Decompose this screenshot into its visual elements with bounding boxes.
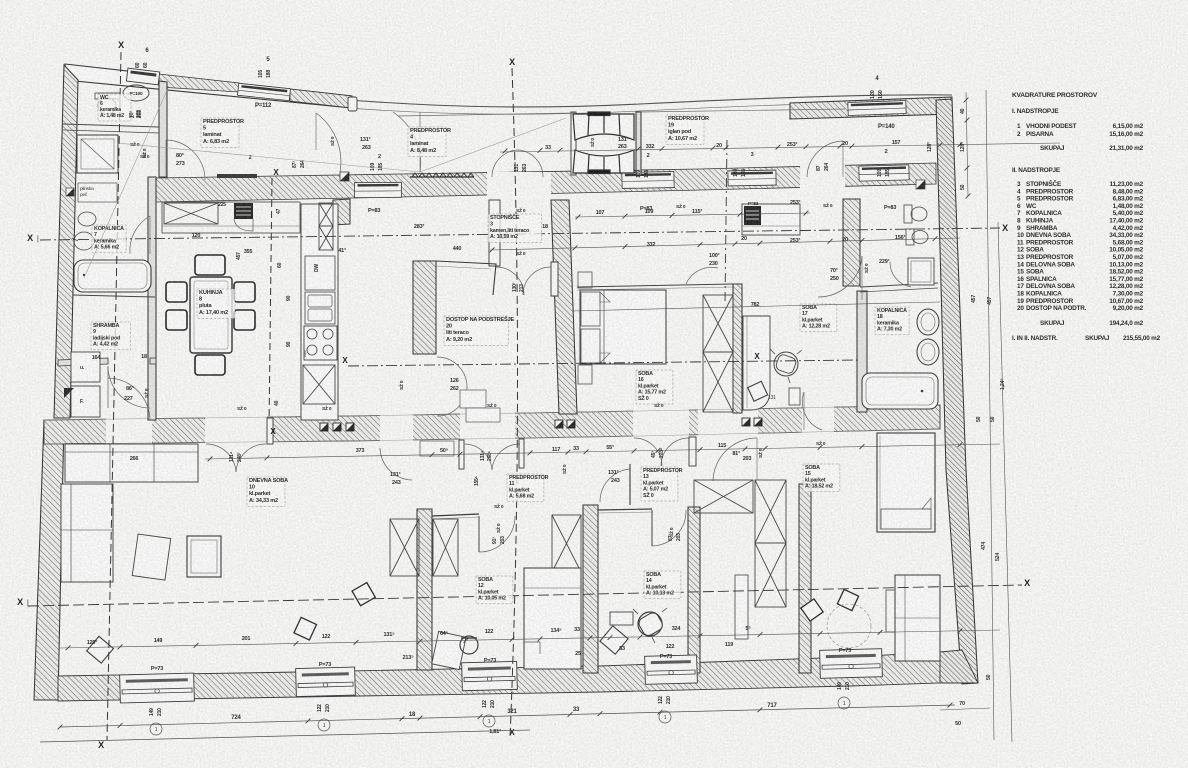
door arc soba14 xyxy=(713,438,757,481)
double door predprostor11 xyxy=(464,444,492,470)
middle wall band xyxy=(44,405,940,444)
wall under WC xyxy=(63,124,159,127)
desk soba17 top xyxy=(742,204,800,235)
right vertical dim lines xyxy=(966,92,968,196)
outer wall left (lower, dnevna) xyxy=(34,420,64,700)
toilet kopalnica7 xyxy=(74,232,94,250)
door arc predprostor5 right xyxy=(316,113,341,172)
washer kopalnica18 xyxy=(908,258,934,285)
office chair soba14 xyxy=(638,612,662,636)
section line horizontal 3 xyxy=(28,585,1022,606)
armchair rotated dnevna 2 xyxy=(294,617,317,640)
bottom-most line 1,81 xyxy=(40,730,530,742)
counter curve xyxy=(234,219,253,231)
wardrobe X upper xyxy=(703,295,733,352)
axis circle 1 xyxy=(318,719,330,731)
wardrobe X soba14 horizontal xyxy=(694,480,753,513)
outer wall top-left wing xyxy=(65,64,352,108)
label predprostor 5 xyxy=(201,118,244,147)
dim 782 xyxy=(573,302,940,311)
dostop top thin wall L xyxy=(436,261,496,295)
shelf soba14 xyxy=(735,575,748,639)
door opening predprostor13 double door in middle wall xyxy=(633,404,689,445)
label kopalnica 18 xyxy=(875,307,909,335)
label soba 12 xyxy=(476,576,513,604)
armchairs soba15 corner xyxy=(801,599,823,621)
corridor boundary line xyxy=(398,113,575,116)
bathtub kopalnica18 xyxy=(862,373,938,409)
wall predprostor19/soba17 xyxy=(843,199,860,286)
flue squares kitchen wall xyxy=(320,423,328,431)
wall soba16/soba17 xyxy=(733,284,742,413)
wall soba12 left xyxy=(417,509,432,670)
stair right thin wall xyxy=(636,112,641,175)
wall soba14 left xyxy=(688,507,700,673)
label WC 6 xyxy=(98,94,131,121)
window P=83 no.1 xyxy=(354,182,401,197)
door arc soba17 xyxy=(818,256,862,297)
dostop small boxes xyxy=(460,390,486,408)
double door stair bottom xyxy=(496,267,524,295)
section line vertical 1 xyxy=(107,52,121,740)
axis circle 1 xyxy=(838,697,850,709)
chair soba12 xyxy=(460,636,478,654)
window P=83 no.2 xyxy=(622,172,674,189)
door arc kopalnica18 xyxy=(890,262,911,287)
dark marker triangles left wall xyxy=(64,388,74,398)
window P=73 no.3 xyxy=(462,661,518,690)
armchair + table soba14 xyxy=(610,612,633,625)
label dostop 20 xyxy=(444,315,514,345)
wall kopalnica/shramba with door gap xyxy=(58,358,108,366)
label stopnisce 3 xyxy=(488,213,542,243)
wall kopalnica/kuhinja xyxy=(148,177,156,420)
wardrobe X soba15 lower xyxy=(755,543,786,607)
bathtub kopalnica7 xyxy=(74,260,151,292)
L-desk soba17 xyxy=(743,316,770,410)
label soba 14 xyxy=(644,571,681,599)
round table dashed soba15 xyxy=(827,604,871,648)
stove 4 burners xyxy=(304,326,337,360)
kitchen dark sink unit xyxy=(234,203,253,219)
section line horizontal 2 xyxy=(348,360,860,366)
kitchen section dashed line xyxy=(269,178,272,426)
armchair bottom-left xyxy=(87,636,114,663)
outer wall bottom band xyxy=(58,652,940,701)
sight line diagonal corridor xyxy=(117,143,420,172)
shower cabin xyxy=(77,135,118,173)
kitchen corner pier xyxy=(333,199,350,225)
toilet kopalnica18 no.1 xyxy=(904,205,912,223)
door arc kopalnica7 xyxy=(130,216,150,254)
washbasin kopalnica7 xyxy=(78,212,96,226)
stair winder upper flight xyxy=(573,112,634,140)
sink kopalnica18 no.1 xyxy=(917,309,939,335)
window P=100 in top wall xyxy=(126,68,159,85)
kitchen table xyxy=(190,277,232,353)
outer wall left (upper wing) xyxy=(54,65,78,418)
kitchen chairs xyxy=(166,282,187,302)
soba14 top wall + door xyxy=(598,509,652,510)
kitchen cabinet X bottom xyxy=(303,365,335,404)
door arc shramba xyxy=(108,366,150,408)
wall stub at dnevna door xyxy=(267,418,273,444)
label shramba 9 xyxy=(91,322,131,350)
wardrobe X soba15 upper xyxy=(755,480,786,543)
door arc middle-wall shramba side xyxy=(108,378,150,420)
armchair rotated dnevna 1 xyxy=(352,583,375,606)
wardrobe X soba12 b xyxy=(433,519,458,576)
label soba 17 xyxy=(800,304,837,332)
label kuhinja 8 xyxy=(197,289,235,318)
interior window-wall band upper xyxy=(156,163,936,202)
window no.3 xyxy=(728,170,776,186)
label kopalnica 7 xyxy=(92,225,126,253)
double door stair top xyxy=(492,150,519,177)
gas stove box (plinska pec) xyxy=(78,183,117,202)
wardrobe X soba12 a xyxy=(390,519,419,576)
dim row top (y~148) xyxy=(500,143,1060,152)
stool soba17 xyxy=(789,388,800,405)
double door dnevna xyxy=(206,444,236,472)
section line horizontal 1 xyxy=(40,228,1000,240)
sofa soba15 xyxy=(895,575,940,661)
wall stub right of double door xyxy=(689,437,696,466)
dim row 332 (y~245) xyxy=(490,238,960,250)
dims bottom right 70 50 xyxy=(940,708,990,710)
label predprostor 19 xyxy=(666,115,709,144)
soba16 top wall line xyxy=(577,284,733,287)
flue squares right wall xyxy=(742,418,750,426)
shelf line below bathtub xyxy=(73,295,155,297)
wardrobe X lower xyxy=(703,352,733,412)
door opening predprostor4 xyxy=(487,172,551,199)
door arc corridor19 xyxy=(807,141,843,177)
kitchen counter column xyxy=(301,204,338,420)
window P=140 xyxy=(848,100,906,115)
door opening predprostor11 left door in middle wall xyxy=(380,404,413,445)
shelf soba15 right xyxy=(886,590,899,632)
bed soba15 xyxy=(877,433,935,532)
short wall stub predprostor4 left xyxy=(348,97,357,111)
door predprostor13 left + wall stub xyxy=(629,464,631,505)
axis circle 1 xyxy=(659,711,671,723)
window P=112 in top wall xyxy=(238,83,291,100)
door arc predprostor5 from WC wall xyxy=(166,140,205,180)
flue square left wall xyxy=(66,188,74,196)
bottom dim line xyxy=(60,705,955,727)
stair wall right hatched xyxy=(551,200,577,414)
wall kopalnica18 top xyxy=(860,283,938,287)
axis dashed vertical x726 xyxy=(725,140,727,302)
dim row y~640 xyxy=(60,630,1000,648)
bed soba16 xyxy=(580,290,666,364)
door-window P=73 no.5 xyxy=(820,649,883,679)
dishwasher DW xyxy=(305,256,335,290)
coffee table 1 xyxy=(132,534,171,580)
flue squares center wall xyxy=(555,420,563,428)
dim row below middle wall (y~450) xyxy=(205,444,1000,459)
sink kopalnica18 no.2 xyxy=(917,339,939,365)
wall soba15 left xyxy=(799,484,811,673)
desk soba12 xyxy=(432,631,466,669)
dim row middle (y~215) xyxy=(575,213,810,217)
wall WC/predprostor5 xyxy=(159,81,167,177)
axis circle 1 xyxy=(150,723,162,735)
wall soba17/kopalnica18 xyxy=(857,291,867,412)
radiator sawtooth predprostor4 xyxy=(412,173,474,177)
window P=73 no.1 xyxy=(120,673,195,703)
flue box small in band xyxy=(340,172,349,181)
stair enclosure wall left xyxy=(489,200,500,266)
stair left wall thin xyxy=(571,112,576,175)
door arc into soba15 xyxy=(802,392,822,430)
niche 50b rect xyxy=(420,441,454,456)
armchair diamond soba17 xyxy=(748,381,768,401)
label soba 16 xyxy=(636,370,673,404)
computer dark on desk xyxy=(744,206,761,225)
flue symbol in band right xyxy=(916,180,925,189)
fridge X box kitchen xyxy=(164,203,218,224)
area table KVADRATURE PROSTOROV xyxy=(1012,92,1161,342)
flue X narrow top xyxy=(319,203,333,226)
door opening shramba in middle wall xyxy=(106,404,152,445)
sofa L dnevna xyxy=(61,444,198,582)
kitchen-wall shelf bar and X marker xyxy=(217,174,257,178)
door opening predprostor19 door in middle wall xyxy=(802,404,834,445)
double door dostop left xyxy=(437,357,467,388)
washing machine F xyxy=(71,386,100,417)
label dnevna soba 10 xyxy=(247,477,288,506)
toilet kopalnica18 no.2 xyxy=(906,229,914,245)
double door predprostor13 xyxy=(634,438,662,466)
outer wall right xyxy=(936,99,978,684)
door opening soba14 door in middle wall xyxy=(698,404,758,445)
kitchen double sink xyxy=(305,292,335,324)
wardrobe X soba12 c xyxy=(552,515,581,572)
wall soba12/soba14 xyxy=(583,505,598,673)
bottom-right corner wall xyxy=(940,650,978,683)
label predprostor 11 xyxy=(507,474,549,502)
door opening predprostor11 door in middle wall xyxy=(460,404,515,445)
section line vertical 2 xyxy=(510,68,518,738)
WC toilet xyxy=(95,93,120,99)
thin wall right of stair door xyxy=(551,262,558,296)
door arc dnevna/predprostor11 xyxy=(380,448,412,480)
outer wall top wavy edge xyxy=(348,95,952,107)
label predprostor 13 xyxy=(641,467,683,501)
axis circle 1 xyxy=(483,715,495,727)
window P=73 no.4 xyxy=(645,655,698,684)
wall dostop left hatched xyxy=(413,261,436,354)
window P=73 no.2 xyxy=(296,667,356,697)
coffee table 2 xyxy=(187,536,221,577)
door opening dnevna double door in middle wall xyxy=(205,404,267,445)
door arc corridor xyxy=(393,112,421,172)
bedside rects soba16 xyxy=(578,272,592,288)
stair winder lower flight xyxy=(573,150,634,174)
kitchen counter along top wall xyxy=(162,202,300,233)
door arc soba16 top xyxy=(686,267,718,284)
outer wall band P=140 top-right xyxy=(790,97,952,119)
bed soba12 xyxy=(524,568,581,669)
door stubs predprostor11 xyxy=(459,440,464,469)
oval label P=100 xyxy=(123,85,149,101)
window P=83 no.4 xyxy=(859,165,909,181)
washing machine U xyxy=(71,352,100,382)
door opening corridor19 xyxy=(800,165,845,189)
label soba 15 xyxy=(803,464,840,492)
soba12 top wall + door xyxy=(432,514,479,516)
office chair soba17 xyxy=(774,352,798,376)
flue X narrow bottom xyxy=(319,226,333,250)
label predprostor 4 xyxy=(408,127,451,156)
